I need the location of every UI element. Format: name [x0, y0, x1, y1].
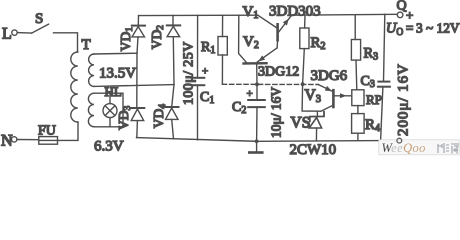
zener diode VS 2CW10	[291, 112, 325, 140]
svg-text:3DD303: 3DD303	[269, 3, 321, 19]
resistor R3	[351, 40, 378, 63]
svg-text:HL: HL	[105, 84, 122, 99]
svg-text:+: +	[202, 66, 208, 78]
node junction R2 bottom	[301, 82, 305, 86]
svg-text:C1: C1	[200, 90, 214, 106]
potentiometer RP	[352, 90, 382, 107]
wire R2 bottom through dashed node to zener jog	[302, 49, 321, 112]
watermark	[379, 138, 459, 155]
wire 6.3V loop	[94, 93, 123, 127]
svg-text:T: T	[82, 37, 91, 53]
svg-text:FU: FU	[38, 124, 56, 139]
wire L to switch	[17, 32, 31, 34]
wire R4 bottom	[357, 133, 359, 140]
svg-text:VD1: VD1	[118, 27, 135, 52]
transformer T primary winding	[71, 37, 91, 122]
svg-text:V1: V1	[243, 4, 259, 21]
node junction C2 top	[255, 82, 259, 86]
transistor V1	[243, 4, 292, 48]
resistor R2	[300, 28, 326, 52]
wire R3 column top	[354, 15, 356, 40]
svg-text:UO = 3 ~ 12V: UO = 3 ~ 12V	[386, 21, 460, 39]
switch S	[32, 11, 49, 33]
svg-text:VD2: VD2	[149, 25, 166, 50]
svg-text:R2: R2	[311, 35, 326, 52]
wire C1 bottom	[197, 85, 199, 140]
wire 13.5V bottom to VD2/VD4 column	[94, 85, 174, 87]
wire R1 to dashed node	[221, 55, 223, 84]
diode VD4	[165, 107, 179, 139]
svg-text:C3: C3	[361, 74, 375, 90]
svg-text:13.5V: 13.5V	[99, 66, 136, 82]
resistor R1	[201, 37, 227, 57]
wire VD1 column top	[137, 16, 139, 26]
svg-text:V3: V3	[305, 87, 321, 105]
diode VD2	[167, 25, 180, 107]
wire fuse to transformer primary bottom	[58, 122, 79, 140]
svg-text:+: +	[406, 8, 413, 23]
wire VD1-VD3 link	[136, 53, 138, 108]
wire V2 base to dashed node	[256, 64, 258, 84]
wire C1 top	[197, 15, 199, 78]
node Q output terminal	[397, 0, 414, 23]
svg-text:WeeQoo: WeeQoo	[382, 141, 426, 155]
wire switch to transformer primary top	[54, 33, 78, 52]
capacitor C2	[232, 84, 265, 141]
fuse FU	[38, 124, 58, 145]
svg-text:200μ/ 16V: 200μ/ 16V	[396, 63, 412, 136]
wire 13.5V top to VD1/VD3 column	[94, 52, 137, 55]
svg-text:R4: R4	[365, 117, 380, 134]
svg-text:S: S	[35, 11, 43, 27]
svg-text:100μ/ 25V: 100μ/ 25V	[182, 41, 197, 105]
svg-text:L: L	[2, 26, 12, 43]
wire top rail left segment	[139, 14, 258, 16]
svg-text:R3: R3	[364, 46, 379, 63]
wire dashed base line	[222, 83, 318, 85]
diode VD1	[132, 26, 145, 54]
wire output column top	[384, 14, 385, 81]
svg-text:10μ/ 16V: 10μ/ 16V	[269, 87, 284, 138]
wire VD2 column top	[172, 15, 174, 25]
diode VD3	[130, 108, 144, 138]
transistor V2	[243, 34, 277, 64]
wire RP to R4	[357, 106, 359, 114]
svg-text:6.3V: 6.3V	[94, 138, 124, 154]
resistor R4	[352, 114, 380, 134]
svg-text:2CW10: 2CW10	[290, 142, 337, 157]
node L terminal	[2, 26, 17, 43]
wire V2 collector column	[239, 15, 247, 62]
wire bottom rail	[137, 138, 381, 142]
node junction C2 bottom	[255, 139, 259, 143]
svg-text:VS: VS	[291, 115, 311, 132]
svg-text:N: N	[1, 133, 13, 150]
lamp HL	[103, 84, 122, 127]
wire R3 to RP	[355, 60, 358, 90]
wire N to fuse	[17, 139, 39, 141]
wire zener stub	[316, 111, 318, 116]
transformer secondary winding 6.3V	[88, 93, 123, 154]
capacitor C3	[361, 74, 390, 90]
wire R2 column top	[304, 15, 306, 28]
ground	[248, 141, 264, 154]
svg-text:RP: RP	[366, 92, 382, 107]
svg-text:3DG12: 3DG12	[258, 65, 299, 80]
transistor V3	[305, 85, 352, 112]
svg-text:3DG6: 3DG6	[311, 68, 348, 84]
svg-text:VD3: VD3	[116, 106, 133, 131]
svg-text:+: +	[247, 88, 253, 100]
node N terminal	[1, 133, 17, 150]
capacitor C1	[192, 66, 215, 107]
transformer secondary winding 13.5V	[89, 54, 137, 86]
svg-text:R1: R1	[201, 40, 215, 56]
svg-text:VD4: VD4	[151, 104, 168, 129]
svg-text:C2: C2	[232, 100, 246, 116]
wire output column bottom	[381, 87, 383, 141]
wire R1 column top	[222, 15, 224, 36]
svg-text:V2: V2	[243, 34, 259, 51]
wire top rail right segment	[291, 13, 397, 16]
